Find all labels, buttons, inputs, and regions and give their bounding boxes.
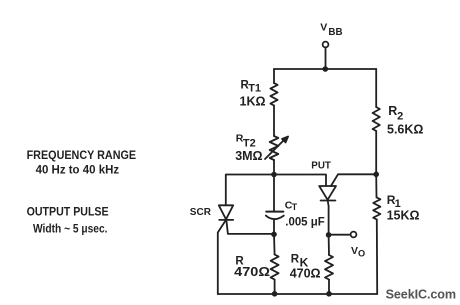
svg-text:OUTPUT PULSE: OUTPUT PULSE (27, 205, 109, 219)
svg-text:15KΩ: 15KΩ (387, 208, 420, 222)
svg-text:SeekIC.com: SeekIC.com (386, 287, 456, 301)
svg-text:V: V (320, 22, 327, 34)
svg-text:R: R (388, 104, 397, 118)
svg-text:FREQUENCY RANGE: FREQUENCY RANGE (27, 148, 137, 162)
svg-text:3MΩ: 3MΩ (235, 149, 262, 163)
svg-text:.005 μF: .005 μF (285, 216, 324, 228)
svg-text:470Ω: 470Ω (290, 267, 321, 281)
svg-text:SCR: SCR (190, 207, 212, 218)
svg-text:V: V (351, 245, 358, 257)
svg-text:BB: BB (328, 27, 342, 38)
svg-text:1KΩ: 1KΩ (240, 95, 266, 109)
svg-text:5.6KΩ: 5.6KΩ (387, 123, 423, 137)
svg-text:T: T (292, 202, 298, 212)
svg-text:PUT: PUT (311, 161, 331, 172)
svg-text:470Ω: 470Ω (234, 265, 270, 279)
svg-text:40 Hz to 40 kHz: 40 Hz to 40 kHz (36, 163, 120, 177)
svg-text:T2: T2 (243, 137, 256, 149)
svg-text:O: O (358, 248, 365, 258)
svg-text:T1: T1 (248, 82, 261, 94)
svg-text:2: 2 (397, 111, 403, 123)
svg-text:R: R (291, 253, 300, 265)
svg-text:Width ~ 5 μsec.: Width ~ 5 μsec. (33, 224, 108, 236)
